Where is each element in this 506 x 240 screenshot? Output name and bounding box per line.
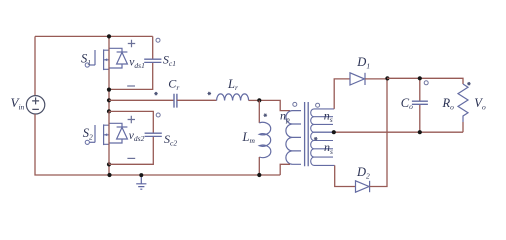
svg-text:D1: D1: [356, 55, 370, 71]
wire D1 cathode: [365, 78, 388, 80]
node Lm bottom junction: [257, 173, 261, 177]
wire mid rail segment B: [177, 99, 217, 101]
wire output top rail: [387, 78, 463, 84]
svg-text:Co: Co: [401, 96, 413, 111]
wire mid vertical: [108, 90, 110, 175]
label plus vds2: [128, 116, 135, 123]
wire D2 cathode riser: [370, 78, 387, 186]
node marker o2: [156, 113, 160, 117]
inductor Lr: [217, 94, 249, 101]
capacitor Sc2: [145, 133, 162, 136]
wire secondary bottom lead: [335, 165, 356, 186]
diode D1: [350, 73, 365, 85]
node marker o3: [293, 102, 297, 106]
label minus vds2: [127, 157, 135, 159]
diode body D-S2: [109, 123, 127, 143]
wire S1 drain-source: [108, 36, 110, 89]
svg-text:Sc2: Sc2: [164, 132, 177, 148]
wire primary top lead: [259, 100, 290, 110]
voltage source Vin: [26, 96, 44, 114]
node marker o5: [424, 81, 428, 85]
node marker star4: [314, 137, 318, 140]
node marker star2: [208, 92, 212, 95]
node center tap junction: [332, 130, 336, 134]
node S1 source junction: [107, 88, 111, 92]
diode body D-S1: [109, 48, 127, 68]
transformer secondary ns bottom: [311, 132, 335, 165]
transistor Q1 (switch S1 mosfet): [85, 49, 109, 70]
wire left side: [34, 36, 36, 95]
node marker star3: [264, 114, 268, 117]
node Co top junction: [418, 76, 422, 80]
svg-text:vds1: vds1: [129, 57, 145, 70]
svg-text:Vin: Vin: [11, 95, 25, 112]
capacitor Sc1 loop wire: [109, 36, 153, 89]
ground: [136, 175, 146, 189]
wire mid rail segment C: [249, 99, 260, 101]
svg-text:Vo: Vo: [474, 96, 486, 112]
label minus vds1: [127, 85, 135, 87]
node D1 D2 junction: [385, 76, 389, 80]
node Co bottom junction: [418, 130, 422, 134]
diode D2: [356, 181, 370, 192]
capacitor Cr: [174, 94, 177, 108]
node ground junction: [139, 173, 143, 177]
transistor Q2 (switch S2 mosfet): [85, 124, 109, 145]
label plus vds1: [128, 40, 135, 47]
transformer core: [305, 102, 309, 166]
svg-text:ns: ns: [324, 109, 333, 125]
node mid tap junction: [107, 98, 111, 102]
svg-text:Lr: Lr: [227, 77, 238, 92]
node marker o1: [156, 38, 160, 42]
wire Lm top: [258, 100, 260, 123]
wire Ro bottom lead: [462, 122, 464, 132]
node top junction: [107, 34, 111, 38]
inductor Lm: [259, 122, 271, 157]
capacitor Sc2 loop wire: [109, 111, 153, 164]
wire top rail: [35, 35, 153, 37]
svg-text:S1: S1: [81, 52, 91, 67]
capacitor Co: [412, 101, 428, 104]
node marker star5: [467, 82, 471, 85]
svg-text:Cr: Cr: [168, 76, 179, 91]
transformer secondary ns top: [311, 109, 335, 132]
wire secondary top lead: [334, 79, 350, 109]
svg-text:vds2: vds2: [129, 130, 145, 143]
node Lm top junction: [257, 98, 261, 102]
wire mid rail segment A: [109, 99, 174, 101]
svg-text:Lm: Lm: [242, 130, 256, 145]
wire Co branch: [419, 78, 421, 132]
svg-text:Sc1: Sc1: [163, 53, 176, 68]
node marker star1: [154, 92, 158, 95]
svg-text:Ro: Ro: [442, 96, 455, 111]
svg-text:ns: ns: [324, 140, 333, 156]
wire bottom rail: [110, 174, 281, 176]
svg-text:S2: S2: [83, 126, 93, 142]
wire Lm bottom: [258, 157, 260, 175]
wire left side lower: [35, 114, 110, 175]
node bottom rail junction: [107, 173, 111, 177]
transformer primary np: [286, 111, 301, 165]
node S2 drain junction: [107, 109, 111, 113]
wire primary bottom lead: [280, 164, 290, 175]
node S2 source junction: [107, 162, 111, 166]
svg-text:D2: D2: [356, 165, 370, 181]
wire S2 drain-source: [108, 111, 110, 164]
node marker o4: [316, 103, 320, 107]
resistor Ro: [458, 84, 468, 122]
capacitor Sc1: [144, 59, 161, 62]
wire center tap: [334, 131, 463, 133]
